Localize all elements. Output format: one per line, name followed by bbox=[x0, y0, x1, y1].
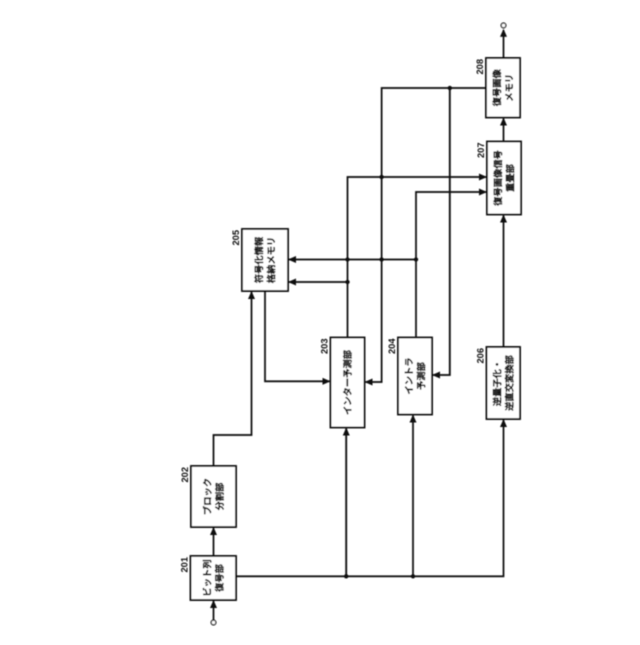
svg-text:206: 206 bbox=[476, 348, 486, 364]
svg-text:204: 204 bbox=[387, 338, 397, 354]
svg-text:205: 205 bbox=[231, 230, 241, 246]
svg-text:203: 203 bbox=[320, 339, 330, 355]
svg-text:208: 208 bbox=[475, 59, 485, 75]
svg-text:202: 202 bbox=[180, 467, 190, 483]
svg-text:207: 207 bbox=[476, 143, 486, 159]
svg-text:201: 201 bbox=[180, 557, 190, 573]
